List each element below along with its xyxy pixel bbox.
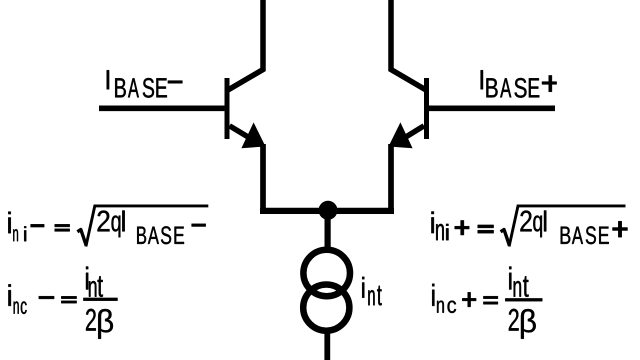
wire: emitter bus: [260, 208, 394, 214]
label IBASE+ : plus sign: [542, 82, 557, 85]
equation inc+ : i: [432, 284, 434, 306]
equation inc+ : numerator int: [509, 267, 511, 290]
label IBASE+ : I: [481, 70, 483, 89]
label IBASE+ : BASE: [486, 78, 497, 97]
equation ini- : subscript BASE: [137, 227, 146, 244]
equation ini- : minus sign: [31, 224, 45, 227]
equation inc+ : denominator 2beta: [509, 309, 519, 331]
equation inc- : minus sign: [39, 296, 54, 299]
equation inc- : denominator 2beta: [86, 309, 96, 331]
label IBASE- : I: [107, 70, 109, 89]
equation ini- : 2qI: [98, 211, 110, 232]
transistor Q2 emitter stroke: [398, 126, 424, 142]
wire: right emitter down: [388, 144, 394, 211]
value label int at current source : subscript nt: [368, 290, 374, 305]
equation ini+ : trailing plus: [613, 228, 628, 231]
current source I1 circle bottom: [303, 285, 349, 331]
wire: left base lead (IBASE-): [99, 106, 227, 112]
equation inc- : fraction bar: [83, 298, 117, 301]
transistor Q2 emitter arrowhead: [389, 122, 413, 148]
label IBASE- : minus sign: [168, 81, 183, 84]
equation ini- : equals sign: [55, 224, 70, 227]
equation inc- : subscript nc: [14, 301, 19, 313]
equation inc+ : equals sign: [483, 296, 498, 299]
equation inc+ : subscript nc: [437, 301, 444, 313]
equation ini- : subscript ni: [13, 229, 18, 241]
equation inc- : i: [8, 284, 11, 306]
equation ini+ : radical sign: [501, 230, 510, 246]
equation inc- : numerator int: [86, 267, 88, 290]
transistor Q1 emitter arrowhead: [241, 122, 265, 148]
transistor Q1 base bar: [225, 78, 230, 139]
wire: right collector of Q2: [391, 0, 426, 90]
wire: node to current source: [325, 215, 331, 248]
wire: current source to bottom edge: [324, 332, 330, 360]
equation ini- : trailing minus: [192, 224, 206, 227]
wire: right base lead (IBASE+): [427, 106, 556, 112]
equation ini+ : equals sign: [478, 225, 494, 228]
wire: left emitter down: [260, 144, 266, 211]
transistor Q1 emitter stroke: [230, 126, 257, 142]
wire: left collector of Q1: [228, 0, 263, 90]
current source I1 circle top: [303, 250, 350, 297]
equation ini+ : 2qI: [520, 211, 531, 232]
equation ini- : i: [8, 212, 11, 234]
equation ini+ : i: [431, 212, 434, 234]
label IBASE- : BASE: [115, 78, 126, 97]
equation ini- : radical sign: [77, 230, 86, 246]
equation inc+ : fraction bar: [505, 298, 542, 301]
transistor Q2 base bar: [424, 78, 429, 139]
equation ini+ : plus sign: [455, 226, 470, 229]
value label int at current source : i: [362, 277, 364, 298]
equation ini+ : subscript BASE: [561, 227, 571, 244]
equation ini+ : subscript ni: [436, 224, 444, 240]
equation inc- : equals sign: [61, 296, 76, 298]
equation inc+ : plus sign: [462, 298, 476, 301]
node: emitter junction dot: [319, 201, 338, 220]
